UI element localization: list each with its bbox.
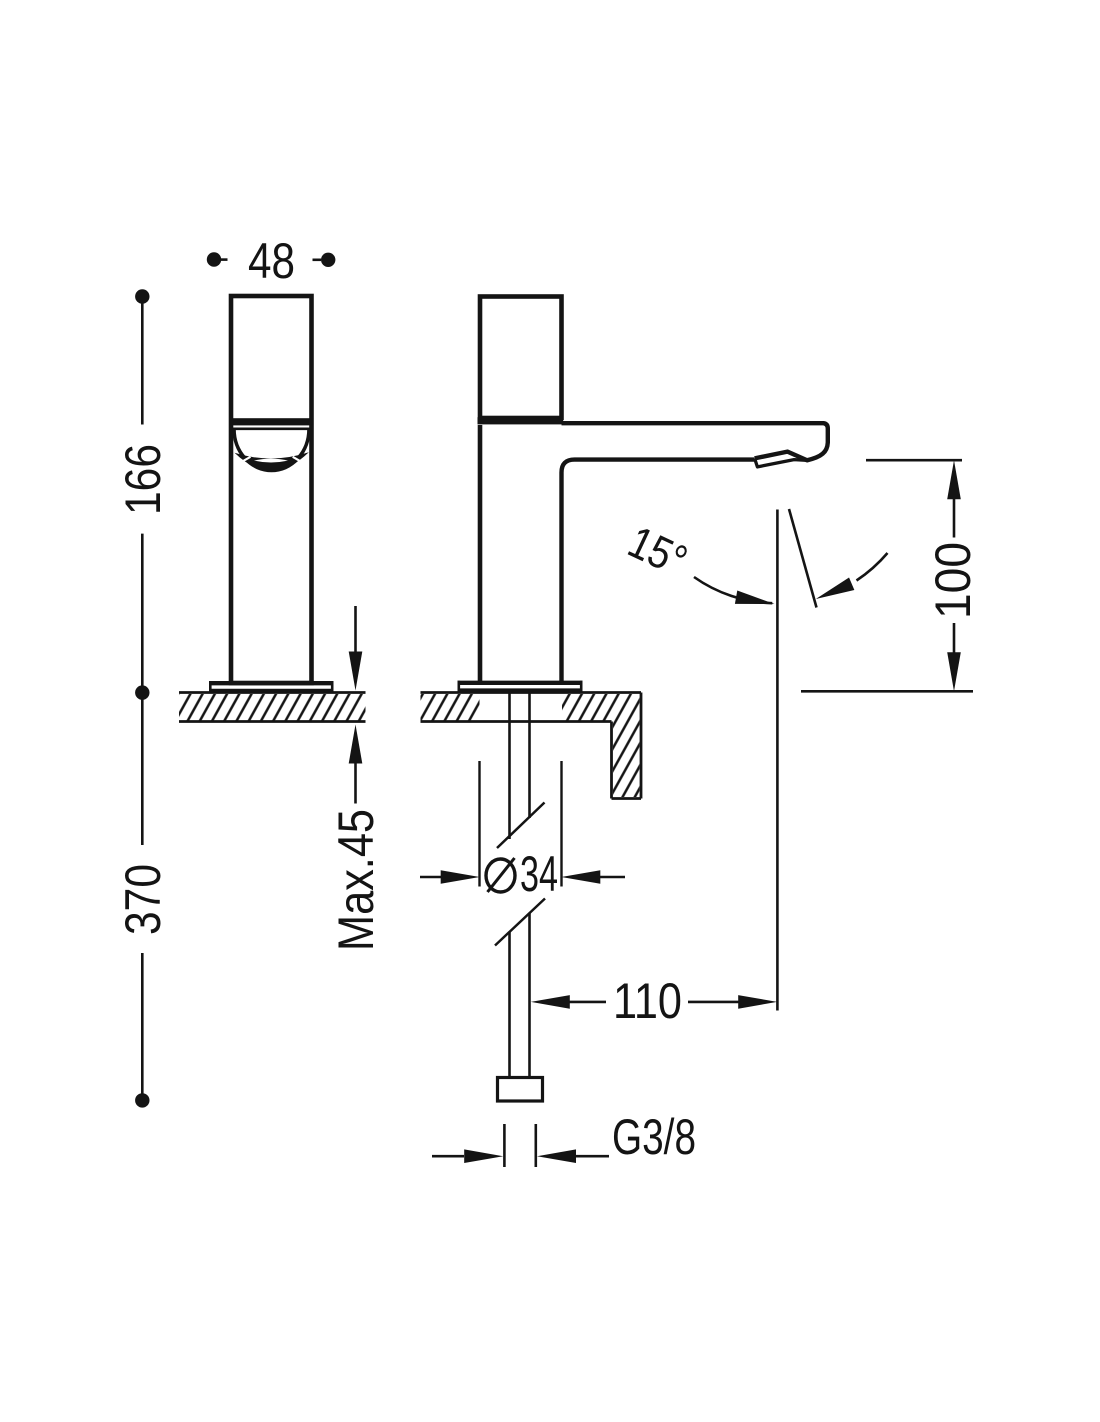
svg-text:48: 48 (248, 233, 295, 289)
svg-text:110: 110 (613, 973, 682, 1029)
svg-text:G3/8: G3/8 (612, 1109, 696, 1165)
svg-text:370: 370 (115, 864, 171, 935)
svg-text:100: 100 (925, 542, 981, 619)
svg-text:34: 34 (520, 846, 558, 902)
svg-text:166: 166 (115, 444, 171, 515)
svg-text:Max.45: Max.45 (328, 809, 384, 951)
